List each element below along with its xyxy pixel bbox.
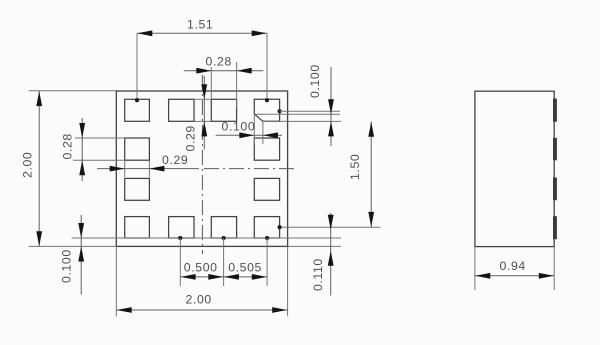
pad bottom row 3 xyxy=(211,217,236,238)
dim 1.51 extension lines xyxy=(137,33,267,100)
pad right column row 1 xyxy=(254,138,279,160)
svg-text:0.110: 0.110 xyxy=(311,258,325,291)
pad bottom extension line xyxy=(72,237,342,239)
pin1 chamfer vertical extensions xyxy=(254,114,263,144)
dim 0.28 top extension lines xyxy=(211,62,236,108)
pad top row 2 xyxy=(169,99,194,121)
dim 0.29 width label xyxy=(162,153,188,167)
svg-text:0.100: 0.100 xyxy=(60,249,74,283)
dim 1.50 label xyxy=(348,154,362,180)
pad left column row 2 xyxy=(125,178,150,200)
dim 0.500 label xyxy=(184,261,218,275)
dim 1.50 line xyxy=(370,121,372,227)
svg-text:0.505: 0.505 xyxy=(228,261,262,275)
dim 2.00 left extension lines xyxy=(29,91,117,247)
side view body outline xyxy=(475,91,554,246)
pin1 pad leader dot xyxy=(278,109,282,113)
svg-text:0.29: 0.29 xyxy=(184,125,198,151)
dim 0.100 right label xyxy=(308,64,322,98)
dim 0.29 width extension lines xyxy=(125,161,150,178)
svg-text:2.00: 2.00 xyxy=(21,152,35,178)
dim 0.29 height label xyxy=(184,125,198,151)
dim 0.29 width arrows xyxy=(110,166,165,172)
svg-text:1.51: 1.51 xyxy=(187,18,213,32)
pad top row 3 xyxy=(211,99,236,121)
svg-text:0.29: 0.29 xyxy=(162,153,188,167)
dim 2.00 left arrows xyxy=(36,91,42,246)
pin1 leader line upper xyxy=(280,110,340,112)
dim 0.28 left arrows xyxy=(79,123,85,175)
dim 0.100 left arrows xyxy=(78,223,84,262)
dim 2.00 bottom line xyxy=(116,309,287,311)
dim 0.28 top line xyxy=(184,70,264,72)
dim 1.50 extension leader xyxy=(280,226,381,228)
dim 2.00 bottom extension lines xyxy=(116,246,287,316)
dim 0.94 label xyxy=(500,259,526,273)
dim 0.110 label xyxy=(311,258,325,291)
dim 0.29 height arrows xyxy=(201,84,207,136)
vertical centerline xyxy=(201,75,203,254)
dim 2.00 left label xyxy=(21,152,35,178)
dim 1.50 arrows xyxy=(368,122,374,227)
svg-text:2.00: 2.00 xyxy=(186,293,212,307)
pad bottom row 2 xyxy=(169,217,194,238)
svg-text:0.100: 0.100 xyxy=(222,120,256,134)
pin1 pad bottom extension xyxy=(263,120,341,122)
svg-text:0.28: 0.28 xyxy=(206,55,232,69)
dim 0.505 line xyxy=(224,276,268,278)
dim 0.505 label xyxy=(228,261,262,275)
package bottom right extension xyxy=(288,245,341,247)
dim 0.29 height gap extension lines xyxy=(194,99,211,121)
dim 0.28 top label xyxy=(206,55,232,69)
dim 1.51 line xyxy=(137,32,267,34)
dim 0.110 arrows xyxy=(328,215,334,266)
dim 0.100 chamfer label xyxy=(222,120,256,134)
dim 0.94 line xyxy=(475,275,554,277)
dim 0.100 left line xyxy=(80,215,82,295)
pad right column row 2 xyxy=(254,178,279,200)
dim 0.505 arrows xyxy=(224,274,267,280)
dim 0.500 arrows xyxy=(181,274,224,280)
horizontal centerline xyxy=(204,168,296,170)
pad bottom row 4 xyxy=(254,217,279,238)
dim 0.500 line xyxy=(180,276,223,278)
pin1 chamfer top extension xyxy=(254,113,340,115)
svg-text:0.100: 0.100 xyxy=(308,64,322,98)
svg-text:1.50: 1.50 xyxy=(348,154,362,180)
dim 1.51 leader dots xyxy=(135,98,269,102)
side view pad bump 2 xyxy=(553,138,557,160)
dim 1.51 arrows xyxy=(137,30,266,36)
dim 0.100 chamfer line xyxy=(216,134,282,136)
dim 0.100 right arrows xyxy=(328,99,334,136)
dim 0.29 height line xyxy=(203,76,205,150)
svg-text:0.28: 0.28 xyxy=(61,133,75,159)
package outline (top view) xyxy=(116,91,287,246)
dim 0.29 width line xyxy=(97,168,199,170)
pad top row 4 (pin 1, chamfered) xyxy=(254,99,279,121)
dim 0.28 left extension lines xyxy=(73,138,125,160)
pitch leader dots xyxy=(178,236,269,240)
side view pad bump 3 xyxy=(553,178,557,201)
side view pad bump 1 xyxy=(553,99,557,122)
pitch leader lines xyxy=(180,238,267,286)
dim 2.00 left line xyxy=(38,91,40,247)
dim 2.00 bottom arrows xyxy=(117,307,288,313)
svg-text:0.500: 0.500 xyxy=(184,261,218,275)
dim 2.00 bottom label xyxy=(186,293,212,307)
dim 0.94 arrows xyxy=(475,273,554,279)
dim 1.50 leader dot xyxy=(278,225,282,229)
dim 0.28 left line xyxy=(81,118,83,181)
side view pad bump 4 xyxy=(553,216,557,239)
dim 0.100 left label xyxy=(60,249,74,283)
dim 1.51 label xyxy=(187,18,213,32)
dim 0.100 chamfer arrows xyxy=(239,132,278,138)
pad left column row 1 xyxy=(125,138,150,160)
pad bottom row 1 xyxy=(125,217,150,238)
dim 0.28 top arrows xyxy=(196,68,251,74)
dim 0.28 left label xyxy=(61,133,75,159)
dim 0.110 line xyxy=(330,213,332,296)
pad top row 1 xyxy=(125,99,150,121)
svg-text:0.94: 0.94 xyxy=(500,259,526,273)
dim 0.94 extension lines xyxy=(475,247,554,290)
dim 0.100 right line xyxy=(330,67,332,146)
